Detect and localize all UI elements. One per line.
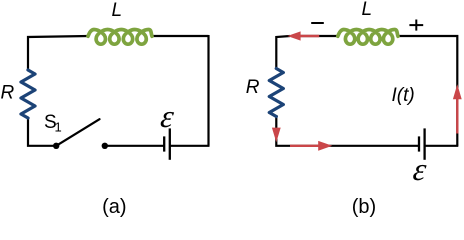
wire: circuit a bottom middle (switch right terminal to battery) [105, 145, 164, 147]
resistor R (circuit b) [269, 69, 283, 117]
battery EMF source (circuit a): short negative plate [163, 136, 165, 151]
svg-text:ε: ε [159, 98, 177, 134]
wire: circuit a right side [207, 35, 209, 146]
wire: circuit b left side (top-left corner down to resistor) [276, 36, 290, 69]
wire: circuit a bottom right (battery to bottom-right corner) [170, 145, 210, 147]
battery EMF source (circuit a): tall positive plate [169, 128, 171, 159]
svg-text:ε: ε [411, 151, 429, 187]
battery EMF source (circuit b): tall positive plate [423, 128, 425, 159]
label R (circuit b) [246, 77, 260, 98]
switch S1 lever (circuit a) [56, 119, 99, 146]
svg-text:L: L [112, 0, 123, 21]
label R (circuit a) [1, 83, 15, 104]
wire: circuit b top segment (arrow area to inductor) [300, 35, 339, 37]
resistor R (circuit a) [21, 70, 35, 118]
battery EMF source (circuit b): short negative plate [418, 136, 420, 151]
label L (circuit b) [362, 0, 373, 20]
label script-epsilon EMF (circuit b) [411, 151, 429, 187]
current arrow pointing up I(t) (right wire, circuit b) [453, 84, 462, 133]
switch S1 right terminal dot [102, 143, 108, 149]
wire: circuit b top right segment (inductor to top-right corner) [397, 36, 457, 146]
wire: circuit b bottom right (battery to bottom-right corner) [425, 145, 459, 147]
svg-text:(a): (a) [102, 196, 126, 218]
label S1 (switch, circuit a) [44, 112, 62, 135]
current arrow pointing left (top wire, circuit b) [287, 31, 319, 40]
svg-text:1: 1 [55, 120, 62, 135]
current arrow pointing right (bottom wire, circuit b) [290, 141, 332, 151]
svg-text:R: R [1, 83, 15, 104]
label L (circuit a) [112, 0, 123, 21]
caption (a) [102, 196, 126, 218]
wire: circuit a bottom left (bottom-left corner to switch left terminal) [28, 118, 56, 146]
svg-text:L: L [362, 0, 373, 20]
inductor L coil (circuit a) [88, 30, 152, 45]
label script-epsilon EMF (circuit a) [159, 98, 177, 134]
label minus sign (inductor left terminal, circuit b) [311, 22, 324, 24]
switch S1 left terminal dot [53, 143, 59, 149]
svg-text:R: R [246, 77, 260, 98]
wire: circuit a top right segment (inductor to top-right corner) [151, 35, 209, 37]
wire: circuit a left side (top-left corner down to resistor) [28, 36, 89, 71]
svg-text:(b): (b) [352, 196, 376, 218]
inductor L coil (circuit b) [338, 30, 398, 45]
svg-text:I(t): I(t) [392, 85, 415, 106]
caption (b) [352, 196, 376, 218]
current arrow pointing down (below resistor, circuit b) [272, 128, 281, 143]
wire: circuit b bottom left (corner to battery) [276, 115, 419, 146]
label plus sign (inductor right terminal, circuit b) [409, 20, 423, 31]
label I(t) (circuit b) [392, 85, 415, 106]
